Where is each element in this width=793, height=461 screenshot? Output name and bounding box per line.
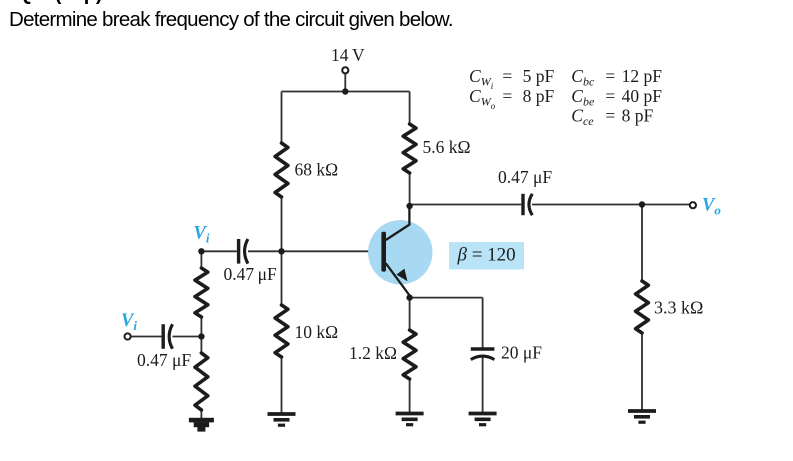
svg-text:Vi: Vi (194, 224, 210, 246)
svg-text:10 kΩ: 10 kΩ (295, 322, 339, 342)
svg-text:1.2 kΩ: 1.2 kΩ (349, 343, 397, 363)
svg-text:CWo=8 pF: CWo=8 pF (469, 86, 554, 111)
svg-text:Vi: Vi (121, 311, 137, 333)
svg-text:20 μF: 20 μF (501, 343, 542, 363)
svg-text:5.6 kΩ: 5.6 kΩ (423, 137, 471, 157)
svg-text:Cce=8 pF: Cce=8 pF (571, 106, 653, 129)
svg-text:68 kΩ: 68 kΩ (295, 159, 339, 179)
svg-text:0.47 μF: 0.47 μF (137, 350, 191, 370)
svg-text:β = 120: β = 120 (457, 245, 516, 266)
svg-text:0.47 μF: 0.47 μF (498, 167, 552, 187)
svg-text:14 V: 14 V (331, 45, 365, 65)
svg-text:3.3 kΩ: 3.3 kΩ (654, 297, 703, 317)
svg-text:Vo: Vo (702, 195, 721, 217)
svg-text:0.47 μF: 0.47 μF (224, 264, 278, 284)
